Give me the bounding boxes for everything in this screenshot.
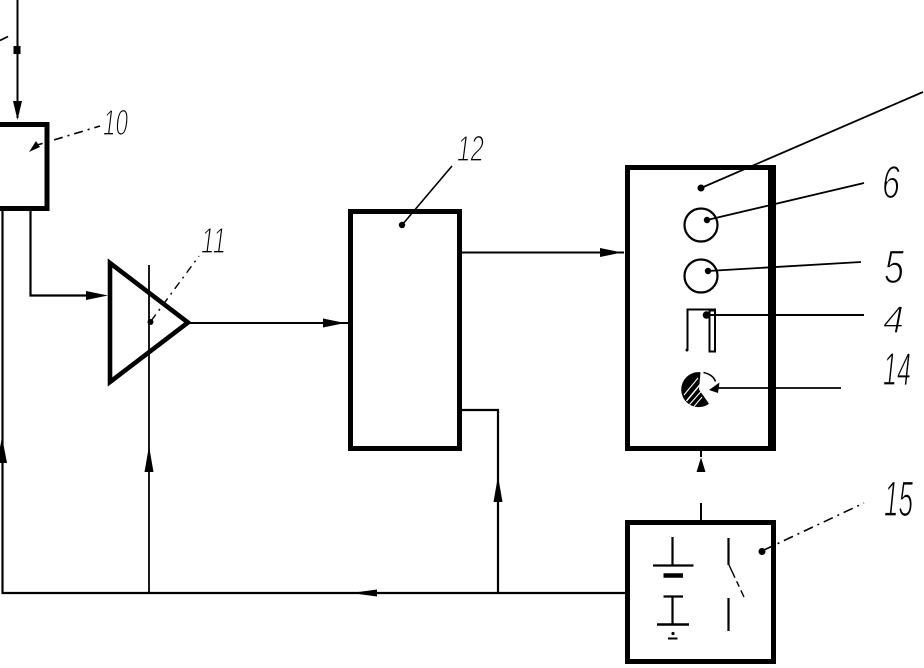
battery cell 1 long plate	[653, 564, 694, 566]
leader to label 14	[717, 387, 841, 389]
arrowhead into panel	[600, 248, 622, 257]
arrowhead up on feedback wire	[145, 446, 154, 472]
leader to label 6	[704, 217, 710, 223]
junction dot on input wire	[14, 46, 21, 54]
arrowhead into amplifier	[86, 291, 108, 300]
svg-text:10: 10	[103, 102, 128, 143]
panel block (top right)	[628, 168, 774, 449]
block 12	[351, 212, 460, 449]
svg-text:12: 12	[457, 128, 484, 169]
svg-text:5: 5	[884, 240, 905, 293]
motor symbol 14 (hatched sector)	[681, 372, 709, 407]
svg-text:4: 4	[883, 299, 904, 342]
arrowhead up on left wire	[0, 437, 7, 463]
leader to label 15	[759, 548, 766, 555]
battery cell 1 stem	[671, 537, 673, 565]
wire: input line into block 10	[17, 0, 19, 118]
panel right edge thick	[768, 165, 776, 451]
wire: block 12 lower-right to bus	[462, 410, 498, 593]
battery cell 2 short plate	[664, 595, 684, 597]
wire: block 10 down the left side to bus	[1, 211, 3, 593]
svg-text:6: 6	[882, 156, 900, 208]
op-amp amplifier 11	[110, 263, 188, 382]
battery cell 2 stem	[671, 597, 673, 624]
leader dash fragment top-left	[0, 37, 8, 41]
bottom bus wire	[2, 592, 626, 594]
battery cell 1 short thick plate	[664, 573, 684, 578]
svg-text:15: 15	[884, 471, 913, 527]
switch blade	[729, 565, 744, 597]
indicator lamp 5	[685, 260, 718, 293]
leader to label 12	[399, 222, 405, 228]
wire: amplifier output to block 12	[188, 322, 348, 324]
battery bottom small marks	[671, 632, 674, 635]
arrowhead left on bus	[351, 590, 377, 597]
recorder symbol 4	[687, 309, 689, 350]
block 10	[0, 125, 47, 209]
arrowhead into block 12	[323, 319, 345, 328]
switch bottom contact	[727, 598, 729, 631]
leader to top-right (off-canvas label)	[698, 185, 705, 192]
switch top contact	[727, 538, 729, 565]
leader to label 4	[703, 311, 711, 319]
svg-text:11: 11	[201, 220, 226, 261]
block 15	[628, 523, 774, 662]
wire: block 12 output to panel	[462, 252, 624, 254]
arrowhead up on that wire	[494, 476, 503, 502]
feedback wire up through amplifier	[148, 265, 150, 593]
arrowhead into block 10	[13, 101, 22, 120]
leader to label 10	[29, 141, 40, 152]
svg-text:14: 14	[883, 343, 911, 395]
leader to label 11	[148, 319, 154, 325]
leader to label 5	[705, 268, 711, 274]
indicator lamp 6	[685, 209, 718, 242]
wire: block 10 to amplifier input	[31, 209, 101, 296]
wire: block 15 up to panel with arrow	[700, 450, 702, 457]
battery cell 2 long plate	[657, 623, 689, 626]
